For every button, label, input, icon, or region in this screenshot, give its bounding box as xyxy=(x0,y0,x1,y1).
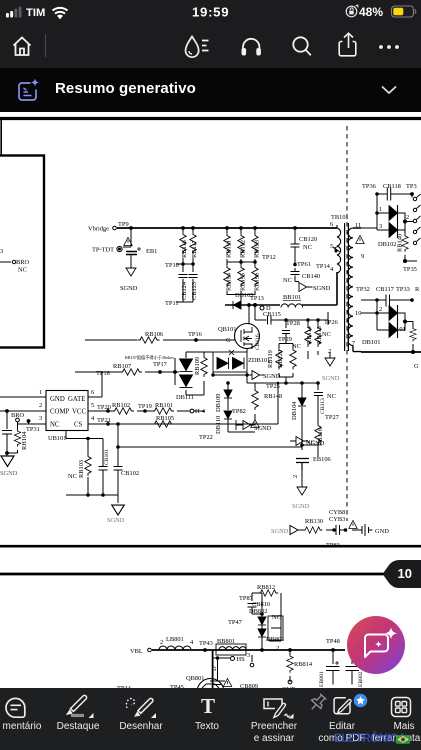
svg-text:TIM: TIM xyxy=(26,7,45,19)
svg-text:19:59: 19:59 xyxy=(192,5,229,20)
svg-text:48%: 48% xyxy=(359,5,383,19)
